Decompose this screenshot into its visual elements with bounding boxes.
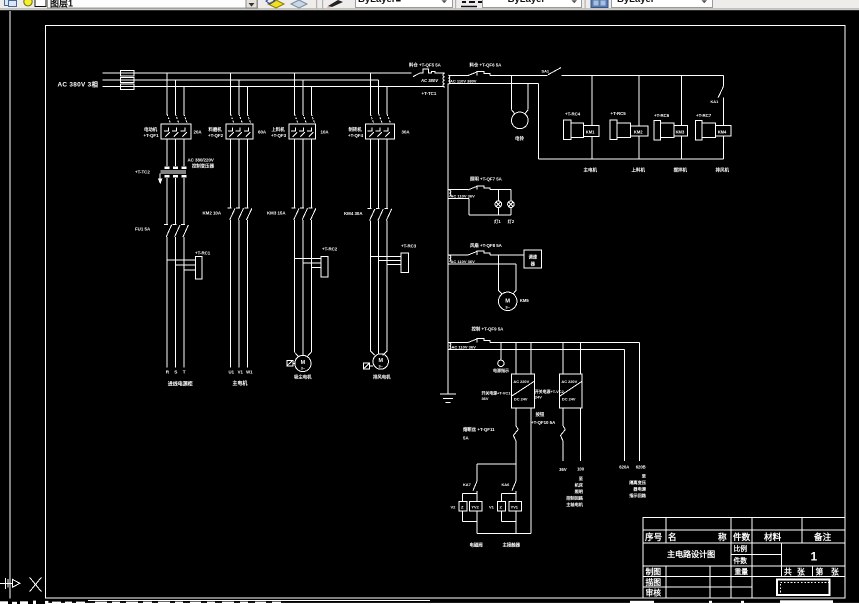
pilot lamp HL [498,342,504,366]
svg-text:主轴电机: 主轴电机 [566,501,584,508]
PSU T-VC2 outputs [563,408,581,461]
svg-text:图层1: 图层1 [50,0,73,9]
solenoid valve YV1 [509,502,522,511]
svg-text:T: T [183,369,186,374]
PSU T-VC1 input wires [516,342,531,374]
svg-text:隔离变压: 隔离变压 [629,479,647,486]
svg-text:+T-QF2: +T-QF2 [208,133,224,138]
fan motor wires [499,255,517,294]
svg-text:+T-QF1: +T-QF1 [144,133,160,138]
relay contact KA6 branch [512,464,516,501]
svg-text:+T-RC5: +T-RC5 [611,111,627,116]
svg-text:36V: 36V [482,396,489,401]
breaker QF3 box [289,124,316,139]
svg-text:灯2: 灯2 [508,218,515,225]
svg-text:1: 1 [811,550,818,564]
breaker QF6 on control rail [468,72,490,76]
transformer T-TC1 primary winding [443,73,445,87]
label QF4 [348,126,410,138]
svg-text:AC 220V: AC 220V [513,379,529,384]
svg-text:风扇 +T-QF8 5A: 风扇 +T-QF8 5A [470,242,503,249]
svg-text:620B: 620B [636,465,646,470]
wire B1-L1 drop [166,73,168,114]
label AC 380/220V control transformer [188,157,215,169]
svg-text:重量: 重量 [735,567,749,576]
svg-text:共: 共 [784,566,792,576]
svg-text:吸尘电机: 吸尘电机 [294,374,312,381]
svg-text:AC 380V: AC 380V [420,78,439,83]
svg-text:AC 380/220V: AC 380/220V [188,157,214,162]
wires below QF3 [295,139,312,208]
label QF3 [271,126,329,138]
fan transformer winding arcs [449,255,451,261]
svg-text:排风电机: 排风电机 [373,374,391,381]
YV2 bottom wire [476,511,478,534]
coil branch KM1 wire [591,75,593,159]
wires below QF1 [167,139,184,166]
destination list (right) [629,472,647,499]
contactor coil KM2 [631,126,648,136]
PSU T-VC1 outputs [516,408,531,534]
fuse FU-L1 [121,70,135,75]
transformer T-TC1 secondary winding [448,75,449,84]
control rail return (second) [450,83,539,85]
layer lightbulb icon (cropped) [24,0,32,6]
breaker QF3 internal marks [291,127,314,136]
RC suppressor T-RC6 [654,121,674,141]
YV1 bottom wire [515,511,517,534]
svg-text:上料机: 上料机 [632,166,646,173]
svg-text:审核: 审核 [646,588,662,598]
wire B2-L3 drop [246,87,248,114]
wire B3-L2 drop [302,80,304,114]
make layer current icon (cropped) [268,0,284,8]
breaker QF7 [468,186,490,190]
wires below QF2 [231,139,248,208]
svg-text:SA1: SA1 [542,69,550,74]
contactor coil KM1 [584,125,599,136]
svg-text:KM4 30A: KM4 30A [344,211,363,216]
properties pen icon (cropped) [328,0,343,7]
bus line L1 [103,72,412,74]
breaker QF8 [468,251,490,255]
separator [585,0,586,9]
layer color swatch icon [35,0,46,7]
svg-text:KM2: KM2 [634,130,643,135]
RC suppressor T-RC1 taps [167,260,196,270]
svg-text:AC 380V 3相: AC 380V 3相 [58,80,99,89]
label T-QF10 [531,411,556,425]
breaker QF2 internal marks [228,127,251,136]
layer combo box [48,0,258,8]
svg-text:30A: 30A [402,130,411,135]
stamp box (dashed selection) [777,580,830,596]
svg-text:+T-TC1: +T-TC1 [422,91,437,96]
bus line L3 [103,86,445,88]
RC suppressor T-RC2 taps [295,259,321,268]
breaker QF4 pole contacts [370,114,390,124]
lamp EL2 [508,190,515,215]
wire B1-L3 drop [183,87,185,114]
switch SA1 [548,68,561,75]
labels lamps [494,218,515,225]
svg-text:制砖机: 制砖机 [349,126,363,133]
svg-text:主接触器: 主接触器 [503,541,521,548]
svg-text:+T-QF4: +T-QF4 [348,133,364,138]
RC suppressor T-RC2 body [321,257,328,278]
breaker QF1 pole contacts [167,114,187,124]
layers toolbar icon (cropped) [5,0,17,7]
control rail return [448,348,625,350]
wire labels 36V 100 [559,467,585,472]
breaker QF5 on L1 [413,69,445,77]
fan motor M [499,292,517,310]
svg-text:张: 张 [831,567,839,576]
contactor KM3 main contacts [292,208,316,220]
label T-VC2 [535,389,565,400]
RC suppressor T-RC5 [610,120,631,140]
fuse FU-L3 [121,84,135,89]
breaker QF3 pole contacts [295,114,315,124]
label QF1 [144,126,203,138]
lighting rail top [448,189,511,191]
breaker QF4 internal marks [368,127,390,136]
svg-text:主电路设计图: 主电路设计图 [667,549,715,559]
transformer T-TC2 windings [161,168,187,177]
wire B4-L3 drop [386,87,388,114]
label QF2 [208,126,267,138]
svg-text:V2: V2 [451,504,457,509]
breaker QF2 box [226,124,253,139]
lighting transformer winding arcs [449,190,451,196]
UCS icon arrow [0,578,20,589]
svg-text:电动机: 电动机 [144,126,158,133]
bell HA body [512,112,529,129]
svg-text:KA7: KA7 [463,482,471,487]
coil branch KM2 wire [638,75,640,159]
svg-text:熔断丝 +T-QF11: 熔断丝 +T-QF11 [463,426,495,433]
svg-text:比例: 比例 [734,544,748,553]
control rail right drops [624,342,639,461]
svg-text:AC 110V 36V: AC 110V 36V [451,194,476,199]
svg-text:料仓 +T-QF6 5A: 料仓 +T-QF6 5A [470,62,503,69]
title block header texts [645,531,832,542]
svg-text:ByLayer: ByLayer [617,0,655,5]
svg-text:+T-RC7: +T-RC7 [696,113,712,118]
main control feed drop [447,84,449,394]
breaker QF1 internal marks [164,127,187,136]
scale/qty/weight labels [734,544,749,576]
command line window top edge [88,600,430,601]
svg-text:备注: 备注 [813,531,832,542]
svg-text:器电源: 器电源 [632,486,646,493]
wire B4-L1 drop [369,73,371,114]
bus line L2 [103,79,379,81]
svg-text:+T-RC4: +T-RC4 [565,111,581,116]
RC suppressor T-RC7 [695,121,715,141]
svg-text:ByLayer■: ByLayer■ [358,0,401,5]
diode V1 box [497,502,505,511]
svg-text:AC 110V 380V: AC 110V 380V [450,78,477,83]
fan rail return [448,264,516,290]
svg-text:主电机: 主电机 [232,380,247,387]
svg-text:电源指示: 电源指示 [493,367,509,373]
motor M3 ground box [287,360,295,366]
svg-text:料磨机: 料磨机 [209,126,223,133]
return rail drop [537,84,539,160]
sign rows labels [646,566,662,597]
fan rail top [448,254,524,256]
contactor KM4 main contacts [368,209,392,221]
svg-text:3~: 3~ [301,367,306,371]
svg-text:排风机: 排风机 [716,166,730,173]
svg-text:KM4: KM4 [718,129,727,134]
svg-text:+T-QF10 5A: +T-QF10 5A [531,420,556,425]
linetype icon (cropped) [462,1,482,3]
bell HA wires [512,84,529,114]
svg-text:DC 24V: DC 24V [562,397,576,402]
svg-text:KM2 10A: KM2 10A [203,210,222,215]
svg-text:5A: 5A [463,436,469,441]
svg-text:搅拌机: 搅拌机 [674,166,688,173]
lineweight combo [612,0,713,8]
diode V1 loop [501,494,516,522]
svg-text:机床: 机床 [575,481,584,488]
PSU T-VC1 box [511,374,534,408]
svg-text:电铃: 电铃 [515,135,524,142]
svg-text:M: M [301,360,306,366]
svg-text:FU1 5A: FU1 5A [135,226,151,231]
control rail 110V (top) [450,74,724,76]
wires B1 to terminals [167,237,184,368]
svg-text:100: 100 [577,467,585,472]
svg-text:器: 器 [530,260,536,267]
svg-text:3~: 3~ [505,304,510,309]
control transformer winding arcs [449,343,451,349]
svg-text:V1: V1 [238,369,244,374]
svg-text:M: M [378,358,383,364]
lineweight icon (cropped) [591,0,608,8]
wire B2-L2 drop [238,80,240,114]
svg-text:AC 220V: AC 220V [561,379,577,384]
svg-text:调速: 调速 [529,253,538,260]
terminals U1 V1 W1 [229,369,254,374]
svg-text:—— ByLayer: —— ByLayer [486,0,545,5]
motor M4 [373,354,388,369]
svg-text:U1: U1 [229,369,235,374]
PSU T-VC2 input wires [563,342,581,374]
wire B3-L3 drop [310,87,312,114]
contactor KM2 main contacts [228,208,252,220]
label T-TC2 with leader arrow [135,169,162,183]
destination list (PSU outputs) [566,475,584,508]
lighting rail return [448,198,511,215]
wire B2-L1 drop [230,73,232,114]
svg-text:V1: V1 [489,504,495,509]
fuse-switch FU1 contacts [164,225,188,237]
svg-text:主电机: 主电机 [584,166,598,173]
coil branch KM4 wire with KA1 contact [718,75,723,159]
svg-text:KM1: KM1 [586,130,595,135]
breaker QF4 box [366,124,395,139]
fuse T-QF10 [561,426,566,462]
svg-text:+T-RC1: +T-RC1 [195,251,211,256]
label T-VC1 [482,390,512,401]
title block outer box [643,518,845,598]
svg-text:620A: 620A [619,465,629,470]
svg-text:+T-TC2: +T-TC2 [135,169,150,174]
breaker QF1 box [161,124,191,139]
svg-text:材料: 材料 [764,531,782,542]
svg-text:料仓 +T-QF5 5A: 料仓 +T-QF5 5A [409,61,442,68]
wires below TC2 [167,178,184,225]
svg-text:24V: 24V [535,395,542,400]
svg-text:照明 +T-QF7 5A: 照明 +T-QF7 5A [470,175,503,182]
svg-text:上料机: 上料机 [272,126,286,133]
svg-text:KM3 15A: KM3 15A [267,210,286,215]
wire B1-L2 drop [174,80,176,114]
svg-text:60A: 60A [258,130,267,135]
toolbar separator grips [316,0,317,9]
svg-text:灯1: 灯1 [494,218,501,225]
relay contact KA7 branch [473,464,477,501]
svg-text:名: 名 [668,531,677,542]
RC suppressor T-RC3 body [401,253,408,273]
sheet count row [784,566,839,576]
svg-text:第: 第 [816,566,824,576]
wires B3 to motor [295,220,312,357]
color control combo [356,0,453,8]
wires B4 to motor [370,221,387,356]
control rail top [448,341,640,343]
svg-text:指示回路: 指示回路 [629,492,647,499]
wire B3-L1 drop [294,73,296,114]
svg-text:S: S [174,369,177,374]
label T-QF11 [463,426,495,441]
svg-text:+T-QF3: +T-QF3 [271,133,287,138]
coil branch KM3 wire [681,75,683,159]
fuse FU-L2 [121,77,135,82]
svg-text:称: 称 [718,531,727,542]
svg-text:控制回路: 控制回路 [566,495,584,502]
svg-text:制图: 制图 [646,566,662,576]
svg-text:+T-RC2: +T-RC2 [322,247,338,252]
diode V2 loop [462,494,476,522]
command line text fragments [0,600,859,604]
junction tick rail1-rail2 [511,75,513,83]
wire B4-L2 drop [378,80,380,114]
speed governor box [524,250,542,268]
svg-text:按钮: 按钮 [536,411,545,418]
wire labels 620A 620B [619,465,645,470]
svg-text:KA6: KA6 [502,482,511,487]
UCS X axis label [30,577,42,592]
title block horizontal rules [643,530,845,587]
solenoid valve YV2 [470,502,482,511]
RC suppressor T-RC4 [563,120,583,140]
svg-text:AC 110V 36V: AC 110V 36V [451,259,476,264]
YV bottom rail [477,533,531,535]
lamp EL1 [495,190,502,215]
svg-text:进线电源柜: 进线电源柜 [168,380,193,387]
svg-text:件数: 件数 [733,531,751,542]
diode V2 box [459,502,467,511]
toolbar background strip (cropped) [0,0,859,10]
svg-text:描图: 描图 [646,577,662,587]
svg-text:开关电源+T-VC2: 开关电源+T-VC2 [535,389,565,394]
svg-text:KM3: KM3 [676,129,685,134]
svg-text:KM5: KM5 [520,298,530,303]
earth ground symbol [440,394,456,403]
svg-text:电磁阀: 电磁阀 [470,541,484,548]
title block vertical rules [666,518,813,598]
svg-text:3~: 3~ [379,365,384,369]
RC suppressor T-RC1 body [196,257,202,280]
svg-text:件数: 件数 [734,556,748,565]
PSU T-VC2 box [560,374,582,408]
YV feed tee [477,463,516,465]
svg-text:序号: 序号 [645,531,663,542]
motor M4 ground box [364,363,373,369]
svg-text:张: 张 [797,567,805,576]
RC suppressor T-RC3 taps [370,256,401,264]
paper edge vertical line (left) [9,11,11,599]
contactor coil KM3 [674,125,687,136]
svg-text:36V: 36V [559,467,567,472]
contactor coil KM4 [715,125,731,136]
fuse T-QF11 [513,426,518,465]
wires below QF4 [370,139,387,209]
linetype combo [483,0,582,8]
svg-text:20A: 20A [194,130,203,135]
svg-text:照明: 照明 [575,488,583,495]
svg-text:YV1: YV1 [511,505,519,510]
svg-text:控制变压器: 控制变压器 [192,163,215,170]
svg-text:+T-RC3: +T-RC3 [401,244,417,249]
svg-text:控制 +T-QF9 5A: 控制 +T-QF9 5A [472,326,505,333]
svg-text:YV2: YV2 [471,505,479,510]
svg-text:DC 24V: DC 24V [514,397,528,402]
svg-text:+T-RC6: +T-RC6 [654,113,670,118]
motor M3 [295,355,311,371]
terminals R S T [166,369,186,374]
breaker QF2 pole contacts [231,114,251,124]
svg-text:10A: 10A [321,130,330,135]
svg-text:KA1: KA1 [711,99,720,104]
layer previous icon (cropped) [291,0,307,8]
breaker QF9 [468,339,490,343]
svg-text:W1: W1 [246,369,253,374]
coil bottom rail [538,158,723,160]
svg-text:开关电源+T-VC1: 开关电源+T-VC1 [482,390,512,395]
wires B2 to terminals [231,220,248,368]
